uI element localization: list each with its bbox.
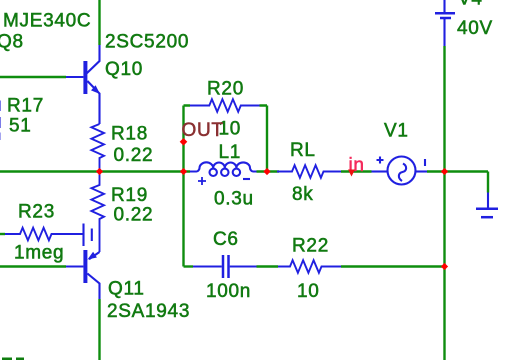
net label "in" anchor marker xyxy=(348,170,355,177)
wire: zobel branch horizontal to C6 xyxy=(184,265,194,267)
svg-text:51: 51 xyxy=(9,116,32,137)
svg-text:MJE340C: MJE340C xyxy=(3,11,91,32)
resistor R18 body xyxy=(91,124,104,172)
wire: Q11 base wire from left edge xyxy=(0,265,66,267)
svg-text:OUT: OUT xyxy=(182,120,224,141)
svg-text:R19: R19 xyxy=(111,185,148,206)
wire: R20 branch right vertical xyxy=(266,106,268,172)
wire: C6 to R22 xyxy=(257,265,279,267)
wire: Q11 collector to bottom edge xyxy=(98,299,100,360)
svg-text:0.22: 0.22 xyxy=(114,205,154,226)
transistor Q10 emitter arrow xyxy=(91,85,100,94)
resistor R23 xyxy=(0,233,5,235)
svg-text:L1: L1 xyxy=(219,142,242,163)
svg-text:R20: R20 xyxy=(207,79,244,100)
node dot: output rail / zobel branch junction xyxy=(180,168,187,175)
svg-text:R17: R17 xyxy=(7,96,44,117)
node dot: output rail / R18-R19 junction xyxy=(96,168,103,175)
svg-text:0.22: 0.22 xyxy=(114,145,154,166)
voltage source V1 xyxy=(372,157,428,185)
svg-text:Q11: Q11 xyxy=(108,279,145,300)
svg-text:2SA1943: 2SA1943 xyxy=(107,301,190,322)
wire: R22 to supply rail xyxy=(341,265,445,267)
node dot: V1 right / supply rail junction xyxy=(441,168,448,175)
wire: RL to V1 xyxy=(341,170,372,172)
transistor Q11 emitter arrow xyxy=(88,252,97,260)
svg-text:R23: R23 xyxy=(18,202,55,223)
svg-text:Q10: Q10 xyxy=(105,59,143,80)
wire: main output rail horizontal left portion xyxy=(0,170,190,172)
resistor R19 body xyxy=(91,172,104,253)
node dot: OUT label anchor xyxy=(180,138,188,146)
svg-text:V1: V1 xyxy=(384,121,409,142)
L1 minus polarity mark xyxy=(243,178,250,180)
svg-text:100n: 100n xyxy=(206,281,251,302)
wire: supply rail down right side xyxy=(443,46,445,360)
transistor Q11 (PNP 2SA1943) xyxy=(66,250,100,299)
svg-text:Q8: Q8 xyxy=(0,32,24,53)
wire: down to right ground xyxy=(487,172,489,193)
resistor R22 xyxy=(278,260,341,273)
svg-text:R22: R22 xyxy=(292,236,329,257)
node dot: output rail / L1-R20 right junction xyxy=(263,168,270,175)
resistor RL xyxy=(277,165,341,178)
wire: Q10 base wire from left edge xyxy=(0,76,66,78)
text fragment bottom left (cut off) xyxy=(2,358,12,360)
inductor L1 xyxy=(190,162,257,176)
svg-text:2SC5200: 2SC5200 xyxy=(105,32,189,53)
wire: zobel branch vertical from OUT xyxy=(182,172,184,267)
svg-text:V4: V4 xyxy=(458,0,483,10)
battery V4 xyxy=(443,0,445,12)
svg-text:8k: 8k xyxy=(292,184,313,205)
wire: top supply wire into Q10 collector xyxy=(98,0,100,45)
L1 plus polarity mark xyxy=(198,177,206,185)
capacitor C6 xyxy=(193,255,257,278)
svg-text:R18: R18 xyxy=(111,124,148,145)
ground symbol (sideways, at R23 right end) xyxy=(82,224,84,247)
svg-text:1meg: 1meg xyxy=(14,243,64,264)
svg-text:0.3u: 0.3u xyxy=(214,189,254,210)
wire: R20 branch left vertical xyxy=(182,106,184,172)
resistor R17 body fragment at left edge xyxy=(0,101,1,112)
ground (bottom right) xyxy=(487,193,489,208)
svg-text:C6: C6 xyxy=(213,229,239,250)
svg-text:10: 10 xyxy=(297,281,320,302)
wire: between L1 and RL xyxy=(257,170,280,172)
wire: R20 branch top corners xyxy=(184,104,268,106)
resistor R20 xyxy=(190,99,260,112)
svg-text:40V: 40V xyxy=(457,18,493,39)
transistor Q10 (NPN 2SC5200) xyxy=(66,45,100,124)
svg-text:RL: RL xyxy=(290,140,316,161)
node dot: zobel / supply rail junction xyxy=(441,263,448,270)
wire: V1 to supply rail junction xyxy=(427,170,488,172)
